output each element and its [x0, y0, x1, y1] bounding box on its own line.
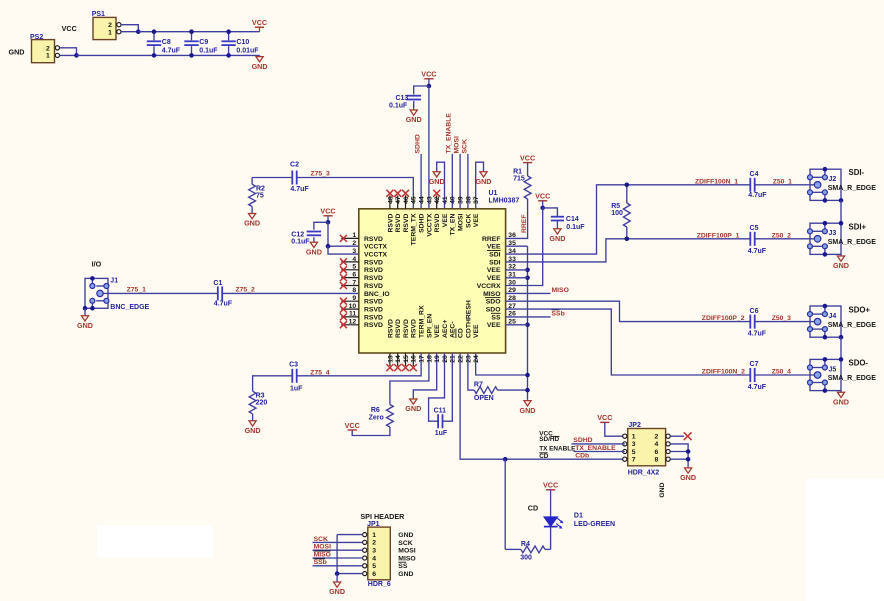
svg-text:6: 6 — [352, 271, 356, 278]
ground JP2 — [680, 466, 696, 482]
capacitor C10 — [221, 29, 259, 57]
wire pin44 SDHD — [420, 154, 422, 209]
svg-text:SCK: SCK — [398, 540, 412, 547]
svg-text:6: 6 — [655, 449, 659, 456]
node SDHD — [415, 134, 422, 153]
pin 30 VCCRX — [477, 279, 516, 290]
pin 19 VEE — [434, 324, 441, 363]
junction VEE pin32 — [525, 268, 530, 273]
power VCC C13 — [421, 70, 436, 86]
junction VEE pin24 — [525, 373, 530, 378]
wire pin18 to R6 — [390, 353, 429, 405]
pin 23 CDTHRESH — [465, 300, 472, 363]
pin 12 RSVD — [340, 319, 383, 330]
svg-text:GND: GND — [405, 404, 421, 413]
svg-text:BNC_EDGE: BNC_EDGE — [110, 304, 149, 311]
svg-text:SSb: SSb — [314, 559, 327, 566]
node TX_ENABLE — [446, 113, 453, 154]
node Z75_4 — [310, 369, 329, 376]
wire VCC to pin30 — [506, 208, 543, 286]
pin 48 RSVD — [386, 190, 394, 233]
svg-text:VCC: VCC — [320, 207, 335, 216]
pin 41 VEE — [442, 196, 449, 227]
svg-text:21: 21 — [450, 355, 457, 363]
svg-text:2: 2 — [46, 45, 50, 52]
svg-text:4.7uF: 4.7uF — [290, 186, 309, 193]
pin 31 VEE — [487, 271, 516, 282]
svg-text:0.1uF: 0.1uF — [389, 103, 408, 110]
svg-text:GND: GND — [680, 473, 696, 482]
svg-text:MISO: MISO — [483, 291, 500, 298]
svg-text:13: 13 — [387, 355, 394, 363]
svg-text:PS2: PS2 — [30, 34, 43, 41]
svg-text:14: 14 — [395, 355, 402, 363]
svg-text:SDI: SDI — [489, 259, 500, 266]
label SDO+ — [849, 305, 871, 314]
wire JP1 gnd bus — [335, 535, 363, 576]
svg-text:Z75_1: Z75_1 — [127, 287, 146, 294]
node ZDIFF100P_1 — [697, 232, 740, 239]
svg-text:1: 1 — [46, 53, 50, 60]
node MISO JP1 — [313, 551, 363, 558]
junction VCC C14 — [540, 206, 545, 211]
svg-text:43: 43 — [426, 196, 433, 204]
svg-text:SMA_R_EDGE: SMA_R_EDGE — [828, 239, 877, 246]
svg-text:47: 47 — [395, 196, 402, 204]
svg-text:RSVD: RSVD — [395, 214, 402, 233]
svg-text:C12: C12 — [291, 231, 304, 238]
svg-text:22: 22 — [458, 355, 465, 363]
wire pin28 to SDO+ line — [506, 301, 751, 321]
svg-text:1: 1 — [632, 434, 636, 441]
svg-text:RSVD: RSVD — [387, 214, 394, 233]
wire pin24 VEE — [476, 353, 528, 375]
connector PS2 — [30, 34, 60, 63]
svg-text:RREF: RREF — [482, 236, 501, 243]
wire pin40 TX_ENABLE — [451, 154, 453, 209]
pin 5 RSVD — [340, 264, 383, 275]
junction CD branch — [503, 457, 508, 462]
svg-text:CD: CD — [458, 328, 465, 338]
node RREF — [521, 214, 528, 233]
svg-text:GND: GND — [245, 426, 261, 435]
pin 27 SDO — [486, 303, 516, 314]
svg-text:VCC: VCC — [421, 70, 436, 79]
svg-text:VCC: VCC — [543, 481, 558, 490]
pin 1 RSVD — [340, 232, 383, 243]
svg-text:38: 38 — [465, 196, 472, 204]
svg-text:4.7uF: 4.7uF — [162, 48, 181, 55]
svg-text:6: 6 — [372, 571, 376, 578]
wire C3 to R3 — [253, 376, 293, 391]
svg-text:BNC_IO: BNC_IO — [364, 291, 390, 298]
wire pin25 VEE — [506, 324, 528, 326]
svg-text:SPI_EN: SPI_EN — [426, 314, 433, 338]
svg-text:C14: C14 — [566, 216, 579, 223]
wire GND rail — [77, 54, 260, 56]
svg-text:RSVD: RSVD — [387, 319, 394, 338]
svg-text:MISO: MISO — [398, 555, 415, 562]
svg-text:100: 100 — [611, 210, 623, 217]
svg-text:0.1uF: 0.1uF — [199, 48, 218, 55]
label SDI- — [849, 168, 865, 177]
svg-text:MOSI: MOSI — [398, 548, 415, 555]
svg-text:SCK: SCK — [465, 214, 472, 228]
pin 44 SDHD — [419, 196, 426, 233]
connector J2 — [808, 167, 877, 203]
svg-text:SS: SS — [491, 314, 501, 321]
svg-text:JP1: JP1 — [367, 521, 380, 528]
svg-text:Z75_3: Z75_3 — [311, 171, 330, 178]
svg-text:SDI: SDI — [489, 252, 500, 259]
svg-text:VCC: VCC — [597, 413, 612, 422]
svg-text:44: 44 — [419, 196, 426, 204]
junction VEE pin31 — [525, 276, 530, 281]
svg-text:40: 40 — [450, 196, 457, 204]
svg-text:RSVD: RSVD — [403, 214, 410, 233]
wire pin33 to SDI+ line — [506, 239, 751, 262]
wire C6 to J4 — [755, 321, 815, 323]
svg-text:PS1: PS1 — [92, 11, 105, 18]
svg-text:VEE: VEE — [473, 213, 480, 227]
ground R2 — [244, 212, 260, 228]
node Z50_1 — [773, 178, 792, 185]
svg-text:VCC: VCC — [535, 192, 550, 201]
wire pin38 SCK — [467, 154, 469, 209]
wire PS1 pin2 to VCC rail — [121, 25, 138, 32]
svg-text:GND: GND — [244, 219, 260, 228]
svg-text:D1: D1 — [574, 512, 583, 519]
connector J1 — [83, 276, 150, 311]
svg-text:SDI-: SDI- — [849, 168, 865, 177]
pin 37 VEE — [473, 196, 480, 227]
svg-text:C11: C11 — [434, 407, 447, 414]
wire pin20 to C11 — [429, 353, 445, 421]
svg-text:ZDIFF100P_1: ZDIFF100P_1 — [697, 232, 740, 239]
pin 2 VCCTX — [352, 240, 387, 251]
wire pin17 to C3 — [297, 353, 421, 376]
pin 22 CD — [456, 328, 465, 363]
pin 40 TX_EN — [450, 196, 457, 235]
capacitor C4 — [748, 171, 767, 199]
wire JP2 pins 4-6-8 to GND — [670, 444, 690, 466]
svg-text:15: 15 — [403, 355, 410, 363]
svg-text:9: 9 — [352, 295, 356, 302]
svg-text:RSVD: RSVD — [434, 214, 441, 233]
wire CD to R4 — [505, 459, 521, 549]
svg-text:GND: GND — [549, 234, 565, 243]
node ZDIFF100P_2 — [702, 315, 745, 322]
node Z50_2 — [772, 232, 791, 239]
pin 8 BNC_IO — [352, 287, 389, 298]
pin 24 VEE — [473, 324, 480, 363]
svg-text:RSVD: RSVD — [364, 314, 383, 321]
svg-text:MOSI: MOSI — [314, 544, 331, 551]
ground pin19 — [405, 353, 436, 413]
pin 47 RSVD — [394, 190, 402, 233]
label SPI HEADER — [360, 512, 405, 521]
svg-text:1uF: 1uF — [290, 385, 303, 392]
connector J3 — [808, 221, 877, 257]
svg-text:C3: C3 — [289, 361, 298, 368]
svg-text:300: 300 — [520, 554, 532, 561]
svg-text:C9: C9 — [199, 39, 208, 46]
ground J5 — [833, 391, 849, 407]
capacitor C12 — [291, 231, 321, 245]
svg-text:LED-GREEN: LED-GREEN — [574, 521, 615, 528]
svg-text:1: 1 — [108, 29, 112, 36]
wire PS2 pin1 to GND rail — [60, 54, 77, 56]
wire PS1 pin1 to VCC rail — [121, 31, 138, 33]
pin 45 TERM_TX — [411, 196, 418, 245]
svg-text:MOSI: MOSI — [458, 213, 465, 230]
svg-text:2: 2 — [372, 540, 376, 547]
svg-text:TX_EN: TX_EN — [450, 214, 457, 236]
svg-text:C7: C7 — [750, 361, 759, 368]
capacitor C9 — [184, 29, 218, 57]
pin 28 SDO — [485, 295, 516, 306]
wire C7 to J5 — [755, 374, 815, 376]
power VCC rail — [252, 18, 267, 32]
svg-text:45: 45 — [411, 196, 418, 204]
svg-text:23: 23 — [465, 355, 472, 363]
wire pin35 VEE — [506, 245, 528, 247]
node SSb JP1 — [313, 559, 363, 566]
svg-text:4: 4 — [655, 441, 659, 448]
ground R3 — [245, 420, 261, 435]
svg-text:1uF: 1uF — [435, 430, 448, 437]
svg-text:4.7uF: 4.7uF — [214, 301, 233, 308]
pin 17 TERM_RX — [419, 305, 426, 363]
ground J3 — [833, 254, 849, 270]
node TX_ENABLE JP2 — [574, 445, 625, 452]
svg-text:HDR_4X2: HDR_4X2 — [628, 469, 660, 476]
pin 21 AEC- — [450, 321, 457, 362]
svg-text:RSVD: RSVD — [364, 259, 383, 266]
svg-text:TX_ENABLE: TX_ENABLE — [446, 113, 453, 154]
node SCK — [461, 139, 468, 153]
svg-text:5: 5 — [632, 449, 636, 456]
svg-text:SMA_R_EDGE: SMA_R_EDGE — [828, 185, 877, 192]
svg-text:GND: GND — [659, 482, 666, 497]
junction pins 2-3 — [326, 244, 331, 249]
svg-text:GND: GND — [520, 406, 536, 415]
svg-text:JP2: JP2 — [628, 422, 641, 429]
svg-text:4: 4 — [352, 256, 356, 263]
node Z75_2 — [236, 287, 255, 294]
label VCC (black) — [62, 24, 77, 33]
label SDO- — [849, 359, 869, 368]
svg-text:TERM_RX: TERM_RX — [419, 305, 426, 338]
svg-text:3: 3 — [352, 248, 356, 255]
ground rail — [252, 55, 268, 70]
wire pin34 to SDI- line — [506, 185, 751, 254]
node Z75_1 — [127, 287, 146, 294]
svg-text:RSVD: RSVD — [403, 319, 410, 338]
svg-text:4.7uF: 4.7uF — [748, 384, 767, 391]
label CD — [528, 503, 538, 512]
svg-text:5: 5 — [352, 264, 356, 271]
svg-text:5: 5 — [372, 563, 376, 570]
wire pin39 MOSI — [459, 154, 461, 209]
svg-text:GND: GND — [306, 247, 322, 256]
svg-text:1: 1 — [372, 532, 376, 539]
capacitor C5 — [748, 225, 767, 255]
svg-text:RSVD: RSVD — [364, 267, 383, 274]
wire C1 to pin8 — [222, 292, 359, 294]
svg-text:GND: GND — [252, 62, 268, 71]
svg-text:C2: C2 — [290, 161, 299, 168]
pin 33 SDI — [489, 256, 516, 267]
resistor R6 — [369, 405, 394, 428]
svg-text:C13: C13 — [395, 95, 408, 102]
pin 20 AEC+ — [442, 320, 449, 363]
ground VEE chain — [520, 400, 536, 415]
svg-text:VCC: VCC — [520, 153, 535, 162]
svg-text:HDR_6: HDR_6 — [368, 581, 391, 588]
svg-text:J3: J3 — [829, 230, 837, 237]
svg-text:RSVD: RSVD — [364, 236, 383, 243]
svg-text:SDI+: SDI+ — [849, 222, 867, 231]
svg-text:Z75_4: Z75_4 — [310, 369, 329, 376]
pin 15 RSVD — [402, 319, 410, 371]
wire VCC to C13 — [414, 86, 429, 94]
pin 36 RREF — [482, 232, 516, 243]
wire pin22 CDb — [460, 353, 625, 459]
pin 35 VEE — [487, 240, 516, 251]
label GND (black) — [9, 48, 25, 57]
svg-text:715: 715 — [513, 176, 525, 183]
pin 29 MISO — [483, 287, 516, 298]
capacitor C1 — [213, 280, 232, 308]
power VCC C14 — [535, 192, 550, 208]
svg-text:4.7uF: 4.7uF — [748, 248, 767, 255]
svg-text:SDO-: SDO- — [849, 359, 869, 368]
svg-text:3: 3 — [372, 548, 376, 555]
svg-text:VEE: VEE — [487, 322, 501, 329]
svg-text:220: 220 — [256, 399, 268, 406]
pin 11 RSVD — [340, 311, 383, 322]
svg-text:SCK: SCK — [314, 536, 328, 543]
ground JP1 — [329, 574, 345, 597]
svg-text:TX ENABLE: TX ENABLE — [539, 446, 576, 453]
power VCC D1 — [543, 481, 558, 517]
svg-text:37: 37 — [473, 196, 480, 204]
svg-text:48: 48 — [387, 196, 394, 204]
svg-text:RSVD: RSVD — [411, 319, 418, 338]
pin 10 RSVD — [340, 303, 383, 314]
svg-text:C10: C10 — [236, 39, 249, 46]
ground pin37 — [476, 162, 492, 209]
wire C5 to J3 — [755, 238, 815, 240]
wire pin27 to SDO- line — [506, 309, 751, 375]
power VCC C12 — [320, 207, 335, 223]
resistor R7 — [474, 382, 528, 402]
node SDHD JP2 — [572, 437, 625, 444]
wire pin26 SS — [506, 316, 551, 318]
wire PS2 pin2 to GND rail — [60, 48, 77, 56]
ground C14 — [549, 221, 565, 244]
wire pin23 to R7 — [468, 353, 474, 390]
svg-text:GND: GND — [429, 177, 445, 186]
svg-text:42: 42 — [434, 196, 441, 204]
white patch bottom-right — [806, 479, 884, 601]
svg-text:39: 39 — [458, 196, 465, 204]
svg-text:4.7uF: 4.7uF — [748, 192, 767, 199]
svg-text:18: 18 — [426, 355, 433, 363]
pin 7 RSVD — [340, 279, 383, 290]
svg-text:SPI HEADER: SPI HEADER — [360, 512, 405, 521]
capacitor C2 — [290, 161, 309, 193]
svg-text:C4: C4 — [750, 171, 759, 178]
svg-text:VEE: VEE — [487, 267, 501, 274]
svg-text:24: 24 — [473, 355, 480, 363]
pin 25 VEE — [487, 319, 516, 330]
svg-text:SDHD: SDHD — [419, 214, 426, 233]
svg-text:VEE: VEE — [487, 275, 501, 282]
pin 43 VCCTX — [426, 196, 433, 237]
svg-text:VCCRX: VCCRX — [477, 283, 501, 290]
svg-text:SDO+: SDO+ — [849, 305, 871, 314]
node MOSI — [454, 136, 461, 153]
resistor R4 — [520, 541, 550, 562]
svg-text:ZDIFF100N_2: ZDIFF100N_2 — [702, 369, 745, 376]
resistor R1 — [513, 163, 531, 199]
ground J1 — [77, 308, 93, 330]
ground C12 — [306, 237, 322, 256]
wire J4 to J5 — [840, 337, 842, 359]
connector J5 — [808, 357, 877, 393]
svg-text:10: 10 — [349, 303, 357, 310]
pin 42 RSVD — [433, 190, 441, 233]
wire VCC to C14 — [543, 208, 558, 217]
svg-text:2: 2 — [655, 434, 659, 441]
svg-text:17: 17 — [419, 355, 426, 363]
svg-text:0.01uF: 0.01uF — [236, 48, 259, 55]
pin 13 RSVD — [386, 319, 394, 371]
wire pin32 VEE — [506, 269, 528, 271]
svg-text:MISO: MISO — [314, 551, 331, 558]
white patch bottom-left — [97, 525, 213, 557]
svg-text:VEE: VEE — [473, 324, 480, 338]
svg-text:LMH0387: LMH0387 — [489, 197, 520, 204]
svg-text:16: 16 — [411, 355, 418, 363]
node CDb — [575, 453, 589, 460]
svg-text:TERM_TX: TERM_TX — [411, 213, 418, 245]
node SCK JP1 — [313, 536, 363, 543]
svg-text:R5: R5 — [611, 203, 620, 210]
svg-text:19: 19 — [434, 355, 441, 363]
svg-text:J1: J1 — [110, 277, 118, 284]
svg-text:46: 46 — [403, 196, 410, 204]
svg-text:Z75_2: Z75_2 — [236, 287, 255, 294]
svg-text:4.7uF: 4.7uF — [748, 331, 767, 338]
svg-text:CDTHRESH: CDTHRESH — [465, 300, 472, 338]
svg-text:7: 7 — [632, 457, 636, 464]
svg-text:SDO: SDO — [486, 299, 501, 306]
svg-text:GND: GND — [398, 532, 413, 539]
svg-text:SDHD: SDHD — [573, 437, 592, 444]
label JP2 ports — [539, 431, 576, 461]
svg-text:7: 7 — [352, 279, 356, 286]
pin 46 RSVD — [402, 190, 410, 233]
wire JP2 pin2 nc — [670, 432, 691, 440]
svg-text:AEC+: AEC+ — [442, 320, 449, 338]
IC U1 body — [359, 190, 520, 353]
svg-text:J2: J2 — [829, 176, 837, 183]
wire J2 to J3 — [840, 200, 842, 223]
svg-text:75: 75 — [256, 192, 264, 199]
